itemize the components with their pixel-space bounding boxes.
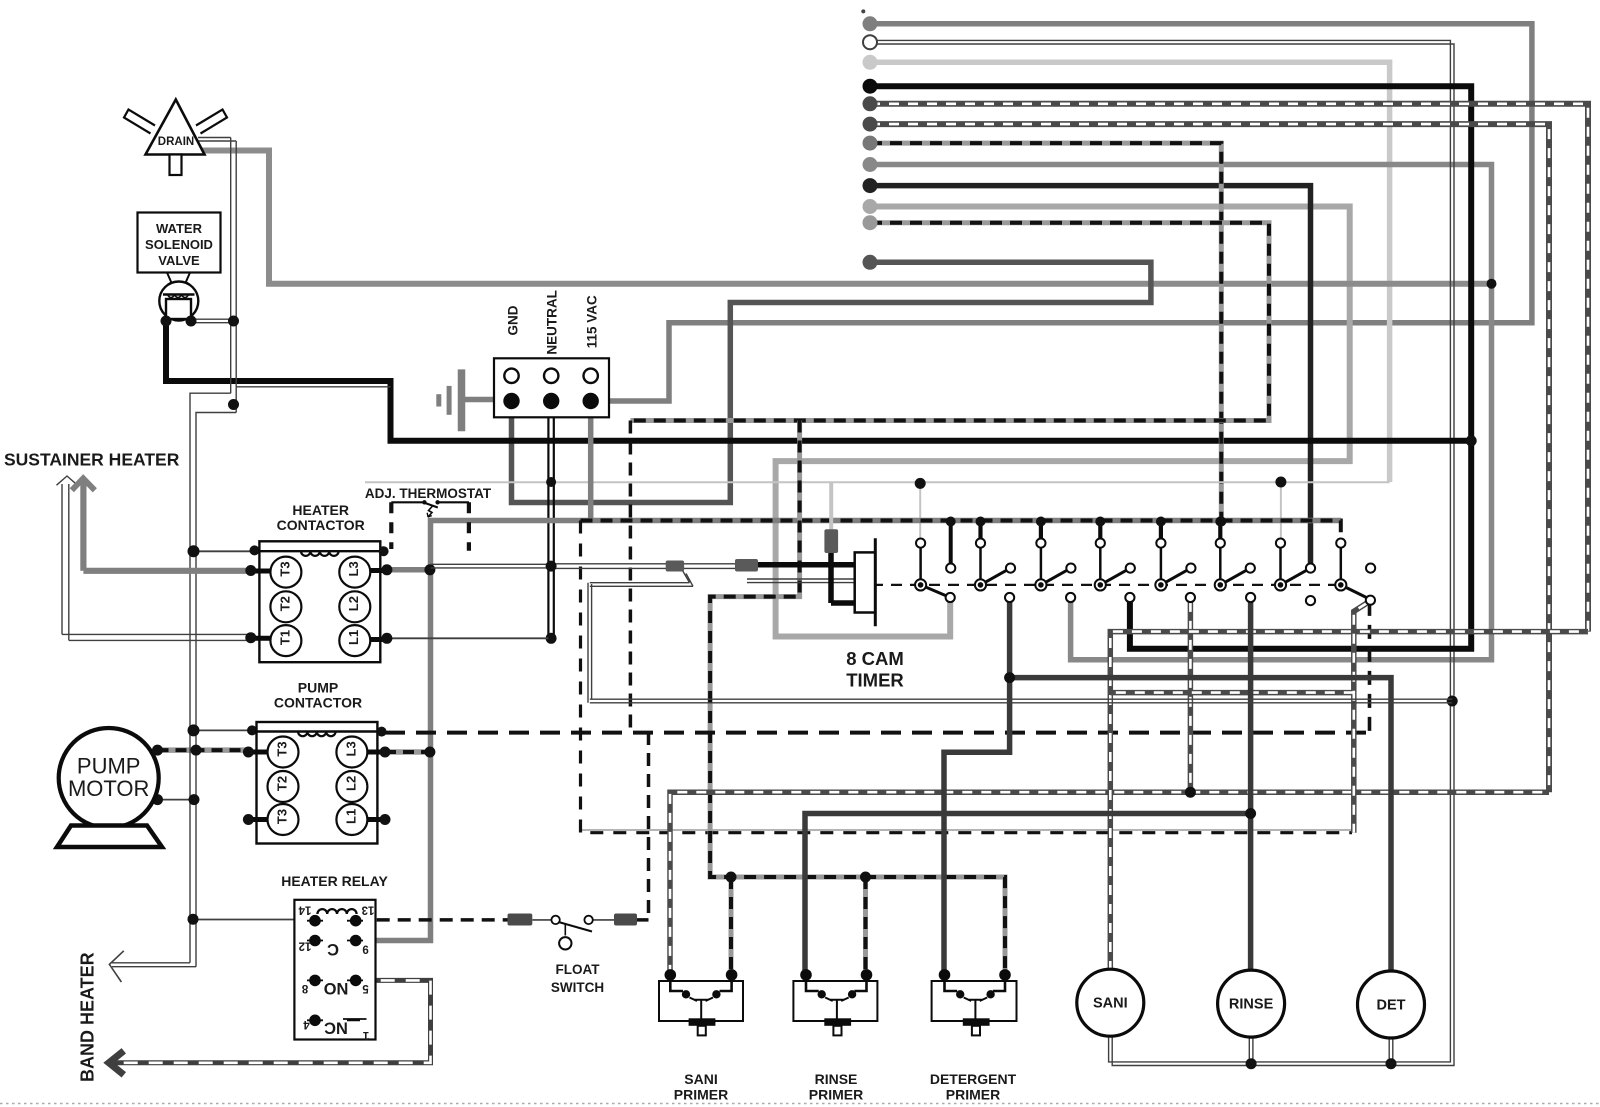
sustainer heater outline arrow with pair to heater T1 xyxy=(57,476,251,640)
bottom dotted border xyxy=(0,1103,1600,1105)
svg-text:CONTACTOR: CONTACTOR xyxy=(277,517,365,533)
drain symbol xyxy=(124,100,227,176)
wire pump contactor dashed line to S8 xyxy=(385,731,1370,735)
svg-text:L1: L1 xyxy=(343,809,358,824)
timer motor symbol xyxy=(855,538,876,626)
switch S3 xyxy=(1035,517,1075,603)
connector timer feed 1 xyxy=(666,561,684,572)
svg-text:T3: T3 xyxy=(275,741,290,756)
timer switches S1-S8 xyxy=(915,517,1375,606)
detergent primer box xyxy=(932,969,1017,1035)
thin gray base of x580.5 dashed rail xyxy=(581,829,1352,831)
wire W5 (dark, white dashed): terminal to S5 branch line xyxy=(863,96,1589,631)
junction gray vert x heater L3 xyxy=(424,564,435,575)
wire neutral pair: NEUTRAL pad down to L1 tie point xyxy=(548,404,553,638)
svg-text:SWITCH: SWITCH xyxy=(551,980,604,995)
wire W11 (gray with black dash): terminal to dashed drop at x630 xyxy=(630,215,1269,420)
water solenoid coil symbol xyxy=(159,273,198,321)
wire dashed leg x799.6: from W11 dashed line down to primer feed corner xyxy=(710,421,1005,975)
connector timer rail xyxy=(824,529,838,553)
svg-text:1: 1 xyxy=(362,1029,369,1041)
wire rinse primer right drop (gray black dash) xyxy=(860,872,871,975)
svg-text:NC: NC xyxy=(324,1018,348,1036)
svg-text:T3: T3 xyxy=(275,809,290,824)
wire pump motor to pump contactor T3 (gray with black dash) xyxy=(158,747,249,753)
wire heater L1 to neutral (thin) xyxy=(387,637,549,639)
timer light-gray connector drop from rail xyxy=(829,482,833,531)
junction neutral pair x motor line xyxy=(546,561,557,572)
wire S6 drop (dark) to RINSE lamp + rinse primer left branch xyxy=(805,602,1251,975)
wire S5 drop (dark white-dashed) to sani dashed rail xyxy=(1188,602,1194,792)
wire dashed-drop x630 to pump dashed line xyxy=(629,421,633,733)
arrow band-heater thin open head xyxy=(109,951,123,982)
junction drain-gray x W8 xyxy=(1487,279,1497,289)
junction rail x S7 pivot riser xyxy=(1275,477,1286,488)
wire S8 black dashed drop xyxy=(1368,602,1372,732)
adj thermostat symbol xyxy=(391,500,469,551)
arrow band-heater filled head (dashed wire) xyxy=(109,1051,124,1075)
switch S2 xyxy=(975,517,1015,603)
svg-text:L3: L3 xyxy=(343,741,358,756)
wire 115VAC gray bus at y520.5 with adj-thermostat drop xyxy=(356,404,1341,941)
svg-text:PUMP: PUMP xyxy=(298,680,338,696)
heater contactor box xyxy=(245,541,392,662)
wire sani lamp white-dashed loop xyxy=(670,632,1588,975)
junction lamp loop x RINSE stub xyxy=(1246,1058,1257,1069)
pump motor xyxy=(57,728,163,847)
svg-text:RINSE: RINSE xyxy=(815,1071,858,1087)
svg-text:DETERGENT: DETERGENT xyxy=(930,1071,1017,1087)
wire W4 (black): terminal, joins solenoid line, to switch S4 lower contact xyxy=(863,79,1472,649)
svg-text:8 CAM: 8 CAM xyxy=(846,648,904,669)
wire pump motor lower terminal to rail xyxy=(158,799,197,801)
switch S5 xyxy=(1155,517,1195,603)
terminal block GND NEUTRAL 115VAC xyxy=(494,358,609,417)
svg-text:RINSE: RINSE xyxy=(1229,997,1274,1013)
svg-text:TIMER: TIMER xyxy=(846,670,904,691)
solenoid terminal dots xyxy=(161,316,172,327)
water solenoid valve box xyxy=(138,213,221,273)
8 cam timer: cam pivot dashed line xyxy=(872,584,1345,586)
svg-text:NEUTRAL: NEUTRAL xyxy=(545,290,560,355)
svg-text:PUMP: PUMP xyxy=(77,754,141,779)
junction rail x pump motor dashed wire xyxy=(191,745,202,756)
svg-text:PRIMER: PRIMER xyxy=(809,1087,863,1103)
junction W2 x thin neutral pair xyxy=(1447,696,1458,707)
wire W9 (near black): terminal to switch S7 upper contact xyxy=(863,178,1311,565)
labels heater contactor terminals xyxy=(277,561,361,645)
svg-text:SUSTAINER HEATER: SUSTAINER HEATER xyxy=(4,450,180,470)
wire thin neutral tie to timer motor line xyxy=(431,564,738,569)
wire rail to heater contactor top-left xyxy=(190,550,259,552)
svg-text:VALVE: VALVE xyxy=(158,253,200,268)
det lamp xyxy=(1358,971,1425,1038)
wire rail to pump contactor top-left xyxy=(190,729,257,731)
wire W2 (outline/white pair): terminal, right edge, bottom lamp common loop xyxy=(863,35,1454,1065)
svg-text:14: 14 xyxy=(298,904,311,916)
wire W1 115VAC feed (gray): terminal dot to 115 VAC pad xyxy=(592,16,1532,401)
heater relay box xyxy=(294,900,375,1040)
svg-text:FLOAT: FLOAT xyxy=(556,962,601,977)
sani lamp xyxy=(1077,969,1144,1036)
svg-text:PRIMER: PRIMER xyxy=(674,1087,728,1103)
wire cam-common thin rail (light): across to S1/S7 pivots and W3 xyxy=(365,482,1390,539)
wire thin neutral-return pair from cam pivot line to W2 xyxy=(588,571,1452,703)
wire W6 (dark, white dashed): terminal to S8 white-dashed net xyxy=(863,117,1550,793)
svg-text:HEATER RELAY: HEATER RELAY xyxy=(281,873,388,889)
wire W8 (gray): terminal, down right side, to switch S3 lower contact xyxy=(863,157,1492,660)
wire solenoid-black: water solenoid valve to junction with W4 xyxy=(166,318,1471,441)
junction gray vert x pump L3 (black dash overlay wire) xyxy=(385,747,435,758)
svg-text:4: 4 xyxy=(303,1018,310,1030)
svg-text:CONTACTOR: CONTACTOR xyxy=(274,695,362,711)
sani primer box xyxy=(659,969,743,1035)
junction W4 x solenoid-black xyxy=(1466,435,1477,446)
svg-text:SOLENOID: SOLENOID xyxy=(145,237,213,252)
svg-text:12: 12 xyxy=(299,940,312,952)
svg-text:MOTOR: MOTOR xyxy=(68,776,149,801)
junction S6 drop x rinse primer branch xyxy=(1245,808,1256,819)
wire float switch riser (black dashed) xyxy=(647,732,651,920)
svg-text:8: 8 xyxy=(301,982,308,994)
svg-text:HEATER: HEATER xyxy=(292,502,349,518)
wire relay pin13 to float switch (black dashed) xyxy=(356,918,649,922)
cam timer bus black dash overlay on gray bus xyxy=(581,521,1341,544)
wire timer motor black feed xyxy=(758,553,855,604)
svg-text:DET: DET xyxy=(1377,998,1406,1014)
wire drain-gray: from DRAIN symbol across to right vertical of W8 xyxy=(202,151,1492,284)
svg-text:L1: L1 xyxy=(346,630,361,645)
rinse lamp xyxy=(1218,970,1285,1037)
junction S2 drop x DET branch xyxy=(1004,672,1015,683)
svg-text:5: 5 xyxy=(362,982,369,994)
svg-text:ADJ. THERMOSTAT: ADJ. THERMOSTAT xyxy=(365,486,492,501)
wire left thin rail pair (from solenoid junction down left side) xyxy=(190,321,391,967)
svg-text:T2: T2 xyxy=(277,596,292,611)
svg-text:NO: NO xyxy=(323,979,348,997)
svg-text:9: 9 xyxy=(362,943,368,955)
svg-text:C: C xyxy=(327,940,339,958)
wire dashed drop x580.5 along y832.7 up to S8 jog xyxy=(581,521,1353,833)
wire heater L3 tie (gray) xyxy=(387,567,431,573)
float switch xyxy=(508,914,638,950)
junction neutral x cam-common rail xyxy=(546,477,556,487)
svg-text:WATER: WATER xyxy=(156,221,203,236)
svg-text:BAND HEATER: BAND HEATER xyxy=(78,952,98,1082)
svg-text:L2: L2 xyxy=(346,596,361,611)
labels heater relay pins (upside down) xyxy=(298,904,374,1041)
labels pump contactor terminals xyxy=(275,741,359,824)
speck artifact xyxy=(861,9,865,13)
labels heater relay C NO NC (upside down) xyxy=(323,940,348,1036)
svg-text:T2: T2 xyxy=(275,776,290,791)
connector timer feed 2 xyxy=(735,559,758,572)
junction lamp loop x DET stub xyxy=(1386,1058,1397,1069)
junction rail jog dot xyxy=(228,399,239,410)
switch S6 xyxy=(1215,517,1255,603)
wire thin band-heater arrow line (pair) xyxy=(112,963,196,967)
switch S1 xyxy=(915,517,956,603)
svg-text:DRAIN: DRAIN xyxy=(158,136,194,148)
svg-text:13: 13 xyxy=(362,904,375,916)
junction solenoid pair dot xyxy=(228,316,239,327)
svg-text:L3: L3 xyxy=(346,561,361,576)
svg-text:SANI: SANI xyxy=(1093,996,1128,1012)
ground symbol xyxy=(439,369,505,431)
junction rail x S1 pivot riser xyxy=(915,478,926,489)
wire W7 (gray with black dash): terminal to cam timer bus xyxy=(863,136,1222,522)
wire S2 drop (dark) to detergent primer left + DET lamp branch xyxy=(944,602,1391,975)
wire S8 white-dashed drop and 692 link xyxy=(1110,603,1367,833)
wire W10 (light gray): terminal to 8-cam-timer gray loop to switch S1 lower contact xyxy=(776,199,1350,637)
wire band heater dashed: relay pin5 NO to band heater arrow xyxy=(114,980,431,1062)
svg-text:SANI: SANI xyxy=(684,1071,717,1087)
wire sani primer right drop (gray black dash) xyxy=(726,872,737,975)
switch S4 xyxy=(1095,517,1135,603)
wire drain outline pair to solenoid junction xyxy=(191,138,236,323)
wire W3 (light gray): terminal to cam-common rail xyxy=(863,55,1390,482)
svg-text:PRIMER: PRIMER xyxy=(946,1087,1000,1103)
svg-text:L2: L2 xyxy=(343,776,358,791)
wire rail to relay pin 14 xyxy=(190,919,294,921)
svg-text:115 VAC: 115 VAC xyxy=(585,295,600,348)
junction W7 x timer bus xyxy=(1216,517,1226,527)
svg-text:T1: T1 xyxy=(277,630,292,645)
wire W12 GND return (dark gray): terminal dot, to GND pad xyxy=(512,255,1151,503)
svg-text:T3: T3 xyxy=(277,561,292,576)
sustainer heater gray arrow to heater T3 xyxy=(72,478,251,571)
junction neutral pair x L1 tie xyxy=(546,633,557,644)
rinse primer box xyxy=(793,969,877,1035)
pump contactor box xyxy=(243,722,391,844)
svg-text:GND: GND xyxy=(506,305,521,335)
switch S7 xyxy=(1275,539,1315,606)
switch S8 xyxy=(1335,539,1375,605)
